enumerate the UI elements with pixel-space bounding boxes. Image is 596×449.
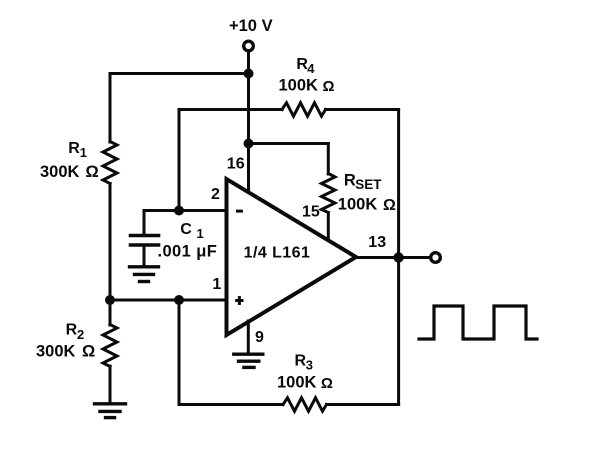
svg-text:300K: 300K (36, 343, 76, 361)
wire output (356, 256, 429, 259)
junction pin1 node (174, 295, 184, 305)
svg-text:R: R (344, 171, 356, 189)
svg-text:16: 16 (227, 156, 245, 173)
label 300K ohm R1 (40, 163, 99, 181)
label R2 (66, 322, 85, 343)
svg-text:100K: 100K (338, 196, 378, 214)
svg-text:2: 2 (77, 327, 84, 342)
svg-text:Ω: Ω (323, 78, 335, 95)
minus input marker (236, 210, 243, 213)
junction pin2 node (174, 206, 184, 216)
svg-text:100K: 100K (277, 374, 317, 392)
svg-text:Ω: Ω (82, 343, 95, 361)
label 100K ohm R3 (277, 374, 333, 392)
label 100K ohm RSET (338, 196, 396, 214)
wire right rail (397, 110, 400, 405)
wire RSET top horizontal (249, 142, 329, 145)
svg-text:C: C (180, 221, 192, 238)
resistor RSET (322, 174, 336, 213)
svg-text:13: 13 (368, 234, 386, 251)
junction output node (393, 252, 403, 262)
power terminal +10 V (244, 41, 254, 51)
svg-text:1: 1 (80, 145, 87, 160)
label R4 (296, 56, 315, 76)
svg-text:SET: SET (355, 177, 382, 192)
svg-text:Ω: Ω (86, 163, 99, 181)
svg-text:3: 3 (306, 357, 313, 372)
svg-text:1/4 L161: 1/4 L161 (244, 245, 311, 262)
junction top rail (244, 69, 254, 79)
ground for C1 (130, 267, 159, 282)
svg-text:2: 2 (211, 186, 220, 203)
output terminal (431, 253, 441, 263)
plus input marker (235, 296, 243, 305)
ground for pin 9 (234, 354, 263, 367)
wire +10V rail vertical (247, 51, 250, 193)
svg-text:1: 1 (212, 276, 221, 293)
label 300K ohm R2 (36, 343, 95, 361)
wire vertical feedback upper (178, 110, 181, 211)
label C1 (180, 221, 203, 241)
svg-text:4: 4 (307, 61, 315, 76)
wire RSET top lead (327, 144, 330, 175)
svg-text:R: R (68, 140, 80, 157)
op-amp U1 1/4 L161 (227, 179, 357, 335)
svg-text:Ω: Ω (321, 375, 333, 392)
svg-text:R: R (295, 353, 307, 370)
svg-text:15: 15 (302, 204, 320, 221)
label R1 (68, 140, 87, 160)
capacitor C1 (143, 211, 146, 236)
wire pin 1 (110, 299, 227, 302)
svg-text:Ω: Ω (383, 197, 396, 214)
wire pin 9 (247, 321, 250, 353)
label R3 (295, 353, 314, 373)
junction left pin1 (105, 295, 115, 305)
resistor R1 (103, 142, 117, 184)
square wave output symbol (419, 306, 537, 339)
wire RSET bottom lead pin 15 (327, 213, 330, 242)
svg-text:R: R (66, 322, 78, 339)
wire bottom right lead (327, 403, 399, 406)
label 100K ohm R4 (279, 77, 335, 95)
wire R4 right lead (326, 108, 399, 111)
svg-text:1: 1 (197, 226, 204, 241)
wire top horizontal (110, 72, 249, 75)
wire left rail middle (109, 184, 112, 301)
resistor R2 (103, 325, 117, 367)
svg-text:.001 μF: .001 μF (158, 242, 218, 260)
wire R2 top lead (109, 300, 112, 325)
svg-text:9: 9 (255, 329, 264, 346)
resistor R3 (283, 398, 327, 411)
wire vertical feedback lower (178, 300, 181, 405)
svg-text:300K: 300K (40, 163, 80, 181)
resistor R4 (282, 103, 326, 116)
svg-text:100K: 100K (279, 77, 319, 95)
wire pin 2 (144, 209, 227, 212)
junction rail RSET (244, 139, 254, 149)
wire left rail upper (109, 74, 112, 143)
label RSET (344, 171, 382, 192)
wire R4 left lead (179, 108, 282, 111)
wire R2 bottom lead (109, 366, 112, 403)
wire bottom left lead (179, 403, 283, 406)
svg-text:+10 V: +10 V (229, 17, 273, 35)
ground for R2 (95, 404, 126, 418)
